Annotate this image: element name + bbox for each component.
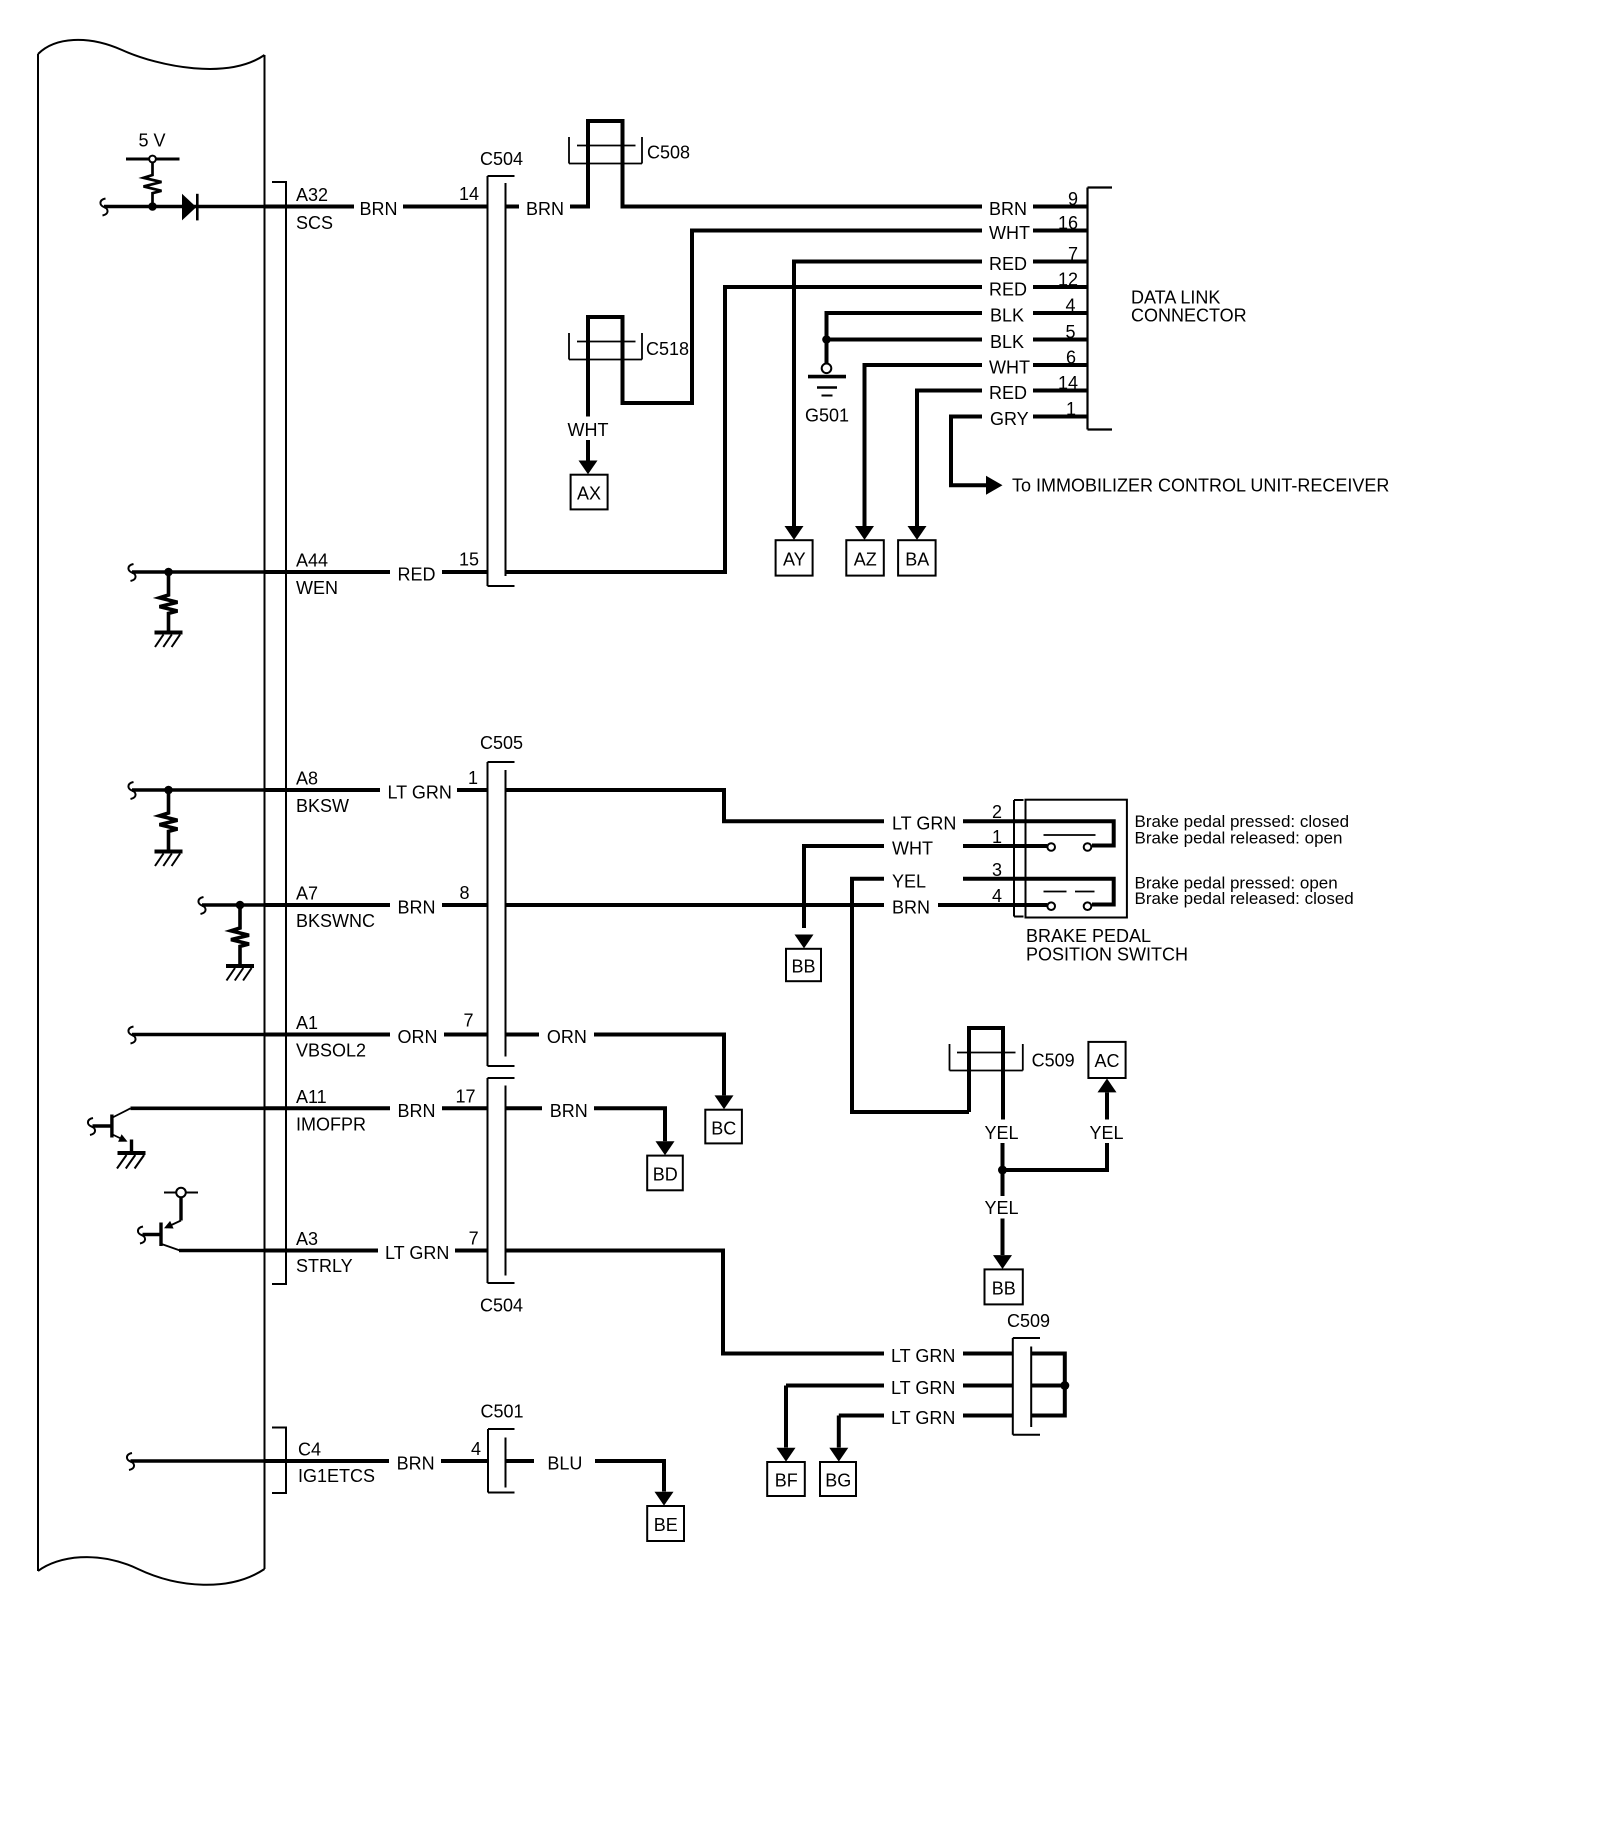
wire brake switch pin 1 to BB (WHT) (963, 844, 1026, 848)
wire C508 to DLC pin 9 (BRN) (623, 205, 983, 209)
svg-text:2: 2 (992, 802, 1002, 822)
connector C518 (in-line) (588, 317, 623, 417)
wire DLC pin 1 to immobilizer (GRY) (1033, 415, 1088, 419)
switch 2 contacts (1047, 902, 1055, 910)
svg-text:BRN: BRN (397, 1454, 435, 1474)
resistor to ground (A7 BKSWNC) (231, 905, 249, 964)
svg-text:LT GRN: LT GRN (891, 1346, 955, 1366)
svg-text:3: 3 (992, 860, 1002, 880)
svg-text:BRN: BRN (550, 1101, 588, 1121)
svg-text:LT GRN: LT GRN (891, 1378, 955, 1398)
svg-text:LT GRN: LT GRN (388, 783, 452, 803)
svg-text:BG: BG (825, 1471, 851, 1491)
wire C504-17 to BD (BRN) (506, 1106, 543, 1110)
ECU connector bracket C (pin C4) (272, 1428, 286, 1494)
wire break squiggle A32 (100, 199, 107, 216)
internal wire A32 SCS (104, 205, 265, 209)
svg-text:17: 17 (455, 1086, 475, 1106)
wire break squiggle A7 (198, 897, 205, 914)
svg-text:GRY: GRY (990, 409, 1029, 429)
internal wire A1 VBSOL2 (132, 1033, 265, 1037)
svg-text:BRN: BRN (398, 898, 436, 918)
off-page box BB (lower) (985, 1269, 1023, 1304)
svg-text:IG1ETCS: IG1ETCS (298, 1466, 375, 1486)
ground symbol (WEN resistor) (155, 633, 183, 648)
svg-text:RED: RED (398, 565, 436, 585)
wire DLC pin 14 to BA (RED) (1033, 389, 1088, 393)
wire A1 to C505 (ORN) (265, 1033, 391, 1037)
svg-text:To IMMOBILIZER CONTROL UNIT-RE: To IMMOBILIZER CONTROL UNIT-RECEIVER (1012, 476, 1389, 496)
svg-text:C501: C501 (480, 1402, 523, 1422)
svg-text:BRN: BRN (526, 199, 564, 219)
svg-text:16: 16 (1058, 213, 1078, 233)
svg-text:WHT: WHT (989, 358, 1030, 378)
connector C509 (lower) (1013, 1338, 1040, 1435)
svg-text:ORN: ORN (547, 1027, 587, 1047)
svg-text:7: 7 (469, 1229, 479, 1249)
switch 2 blade (open, dashed) (1044, 891, 1095, 893)
internal wire A11 IMOFPR (131, 1107, 265, 1111)
pull-up resistor (A32 SCS) (144, 163, 162, 207)
svg-text:WHT: WHT (989, 223, 1030, 243)
wire A3 to C504 (LT GRN) (265, 1249, 379, 1253)
connector C509 (in-line, upper) (969, 1028, 1003, 1120)
resistor to ground (A44 WEN) (160, 572, 178, 631)
svg-text:C505: C505 (480, 733, 523, 753)
wire DLC pin 5 to junction (BLK) (1033, 338, 1088, 342)
svg-text:BB: BB (992, 1279, 1016, 1299)
svg-text:8: 8 (459, 883, 469, 903)
connector C501 (488, 1429, 515, 1493)
junction dot BLK (822, 335, 831, 344)
switch 1 contacts (1047, 843, 1055, 851)
svg-text:BKSW: BKSW (296, 796, 349, 816)
svg-text:A11: A11 (296, 1087, 327, 1107)
svg-text:SCS: SCS (296, 213, 333, 233)
wire break squiggle A1 (128, 1027, 135, 1044)
svg-text:14: 14 (459, 184, 479, 204)
svg-text:BRN: BRN (360, 199, 398, 219)
diode on SCS line (182, 194, 196, 221)
svg-text:1: 1 (1066, 399, 1076, 419)
connector C505 (488, 762, 515, 1066)
junction dot YEL (998, 1166, 1007, 1175)
wire C501-4 to BE (BLU) (506, 1459, 535, 1463)
wire break squiggle A11 base (88, 1118, 95, 1135)
svg-text:IMOFPR: IMOFPR (296, 1115, 366, 1135)
svg-text:C509: C509 (1007, 1311, 1050, 1331)
off-page box AX (571, 475, 608, 510)
svg-text:Brake pedal released: open: Brake pedal released: open (1135, 828, 1343, 847)
svg-text:POSITION SWITCH: POSITION SWITCH (1026, 945, 1188, 965)
svg-text:AY: AY (783, 550, 806, 570)
svg-text:CONNECTOR: CONNECTOR (1131, 306, 1247, 326)
svg-text:RED: RED (989, 383, 1027, 403)
wire DLC pin 16 to C518 (WHT) (1033, 229, 1088, 233)
svg-text:BB: BB (791, 957, 815, 977)
svg-text:YEL: YEL (984, 1198, 1018, 1218)
wire break squiggle C4 (127, 1453, 134, 1470)
off-page box BD (647, 1156, 683, 1191)
svg-text:DATA LINK: DATA LINK (1131, 288, 1220, 308)
svg-text:12: 12 (1058, 270, 1078, 290)
ground G501 (808, 364, 846, 396)
svg-text:G501: G501 (805, 406, 849, 426)
svg-text:LT GRN: LT GRN (891, 1408, 955, 1428)
svg-text:BC: BC (711, 1119, 736, 1139)
wire C505-1 to brake switch pin 2 (LT GRN) (506, 790, 885, 821)
wire C505-7 to BC (ORN) (506, 1033, 540, 1037)
junction dot LT GRN bus (1060, 1381, 1069, 1390)
junction dot on BKSW line (164, 786, 173, 795)
svg-text:WEN: WEN (296, 578, 338, 598)
5 V terminal circle (149, 156, 156, 163)
svg-text:4: 4 (471, 1439, 481, 1459)
off-page box BC (705, 1110, 742, 1144)
ground symbol (BKSW resistor) (155, 852, 183, 867)
wire A8 to C505 (LT GRN) (265, 788, 381, 792)
internal wire A8 BKSW (132, 788, 265, 792)
svg-text:A3: A3 (296, 1229, 318, 1249)
off-page box AY (776, 540, 813, 575)
wire junction to BB (YEL) (1001, 1170, 1005, 1196)
internal wire A3 STRLY (179, 1249, 265, 1253)
svg-text:BLU: BLU (547, 1454, 582, 1474)
svg-text:C504: C504 (480, 1296, 523, 1316)
wire C504-14 to C508 (BRN) (506, 205, 520, 209)
off-page box BB (786, 949, 821, 981)
wire DLC pin 4 to G501 (BLK) (1033, 311, 1088, 315)
svg-text:YEL: YEL (1089, 1123, 1123, 1143)
junction dot on SCS line (148, 202, 157, 211)
svg-text:BRN: BRN (892, 898, 930, 918)
svg-text:C508: C508 (647, 143, 690, 163)
svg-text:BRN: BRN (398, 1101, 436, 1121)
switch 2 internal wire (pins 3-4) (1026, 879, 1114, 905)
svg-text:YEL: YEL (892, 871, 926, 891)
switch 1 blade (1044, 834, 1096, 836)
transistor Q (STRLY driver, PNP) (143, 1188, 199, 1251)
svg-text:C518: C518 (646, 339, 689, 359)
internal wire A44 WEN (132, 570, 265, 574)
svg-text:BRAKE PEDAL: BRAKE PEDAL (1026, 926, 1151, 946)
svg-text:A1: A1 (296, 1013, 318, 1033)
svg-text:A8: A8 (296, 769, 318, 789)
wire break squiggle A8 (128, 782, 135, 799)
junction dot on BKSWNC line (236, 901, 245, 910)
svg-text:AZ: AZ (854, 550, 877, 570)
wire A44 to C504 (RED) (265, 570, 391, 574)
svg-text:AC: AC (1094, 1051, 1119, 1071)
svg-text:WHT: WHT (892, 839, 933, 859)
transistor Q (IMOFPR driver, NPN) (93, 1108, 132, 1153)
svg-text:STRLY: STRLY (296, 1256, 353, 1276)
svg-text:YEL: YEL (984, 1123, 1018, 1143)
svg-text:C4: C4 (298, 1440, 321, 1460)
wire A7 to C505 (BRN) (265, 903, 391, 907)
svg-text:AX: AX (577, 484, 601, 504)
5 V power rail (126, 158, 180, 161)
svg-text:Brake pedal released: closed: Brake pedal released: closed (1135, 889, 1354, 908)
svg-text:15: 15 (459, 550, 479, 570)
svg-text:BE: BE (654, 1515, 678, 1535)
off-page box BG (820, 1462, 856, 1496)
resistor to ground (A8 BKSW) (160, 790, 178, 850)
svg-text:BD: BD (653, 1165, 678, 1185)
ECU module box (torn-edge outline) (38, 40, 265, 1585)
wire C4 to C501 (BRN) (265, 1459, 390, 1463)
wire A11 to C504 (BRN) (265, 1106, 391, 1110)
wire DLC pin 6 to AZ (WHT) (1033, 363, 1088, 367)
svg-text:BF: BF (775, 1471, 798, 1491)
svg-text:7: 7 (1068, 244, 1078, 264)
off-page box AC (1088, 1042, 1125, 1078)
svg-text:A44: A44 (296, 551, 328, 571)
internal wire A7 BKSWNC (202, 903, 265, 907)
connector C504 (upper) (488, 176, 515, 586)
svg-text:BKSWNC: BKSWNC (296, 911, 375, 931)
svg-text:BLK: BLK (990, 306, 1024, 326)
svg-text:VBSOL2: VBSOL2 (296, 1041, 366, 1061)
wire C509 row 2 to BF (LT GRN) (786, 1384, 884, 1388)
wire break squiggle A44 (128, 564, 135, 581)
svg-text:C504: C504 (480, 149, 523, 169)
ground symbol (IMOFPR emitter) (117, 1153, 146, 1169)
svg-text:5: 5 (1065, 322, 1075, 342)
brake switch connector bracket (1014, 800, 1024, 917)
wire DLC pin 7 to AY (RED) (1033, 260, 1088, 264)
ECU connector bracket A (pins A32..A3) (272, 182, 286, 1284)
svg-text:ORN: ORN (398, 1027, 438, 1047)
svg-text:1: 1 (468, 768, 478, 788)
svg-text:4: 4 (1065, 296, 1075, 316)
BRAKE PEDAL POSITION SWITCH box (1026, 800, 1127, 918)
svg-text:RED: RED (989, 280, 1027, 300)
wire A32 to C504 (BRN) (265, 205, 355, 209)
svg-text:9: 9 (1068, 189, 1078, 209)
svg-text:WHT: WHT (568, 420, 609, 440)
wire C504-15 to DLC pin 12 (RED) (506, 287, 983, 572)
svg-text:7: 7 (463, 1011, 473, 1031)
svg-text:RED: RED (989, 254, 1027, 274)
wire C509 bus (right side) (1031, 1354, 1065, 1416)
wire C505-8 to brake switch pin 4 (BRN) (506, 903, 885, 907)
off-page box BF (767, 1462, 805, 1496)
svg-text:4: 4 (992, 886, 1002, 906)
svg-text:1: 1 (992, 827, 1002, 847)
ground symbol (BKSWNC resistor) (226, 966, 254, 981)
switch 1 internal wire (pins 2-1) (1026, 821, 1114, 845)
svg-text:A32: A32 (296, 185, 328, 205)
wire junction to AC (YEL) (1003, 1143, 1108, 1170)
junction dot on WEN line (164, 568, 173, 577)
wire C509 row 3 to BG (LT GRN) (839, 1414, 884, 1418)
off-page box BE (647, 1506, 684, 1541)
wire brake switch pin 3 to C509 (YEL) (963, 877, 1026, 881)
svg-text:A7: A7 (296, 884, 318, 904)
wire C504-7 to C509 row 1 (LT GRN) (506, 1251, 885, 1354)
connector C504 (lower) (488, 1078, 515, 1283)
svg-text:14: 14 (1058, 373, 1078, 393)
svg-text:5 V: 5 V (138, 131, 165, 151)
DATA LINK CONNECTOR bracket (1088, 188, 1113, 430)
wire break squiggle A3 base (138, 1227, 145, 1244)
svg-text:BRN: BRN (989, 199, 1027, 219)
svg-text:C509: C509 (1032, 1051, 1075, 1071)
svg-text:LT GRN: LT GRN (892, 814, 956, 834)
off-page box BA (898, 540, 936, 575)
off-page box AZ (846, 540, 884, 575)
connector C508 (in-line) (588, 121, 623, 209)
internal wire C4 IG1ETCS (131, 1459, 265, 1463)
svg-text:6: 6 (1066, 348, 1076, 368)
svg-text:BA: BA (905, 550, 929, 570)
svg-text:BLK: BLK (990, 332, 1024, 352)
svg-text:LT GRN: LT GRN (385, 1243, 449, 1263)
